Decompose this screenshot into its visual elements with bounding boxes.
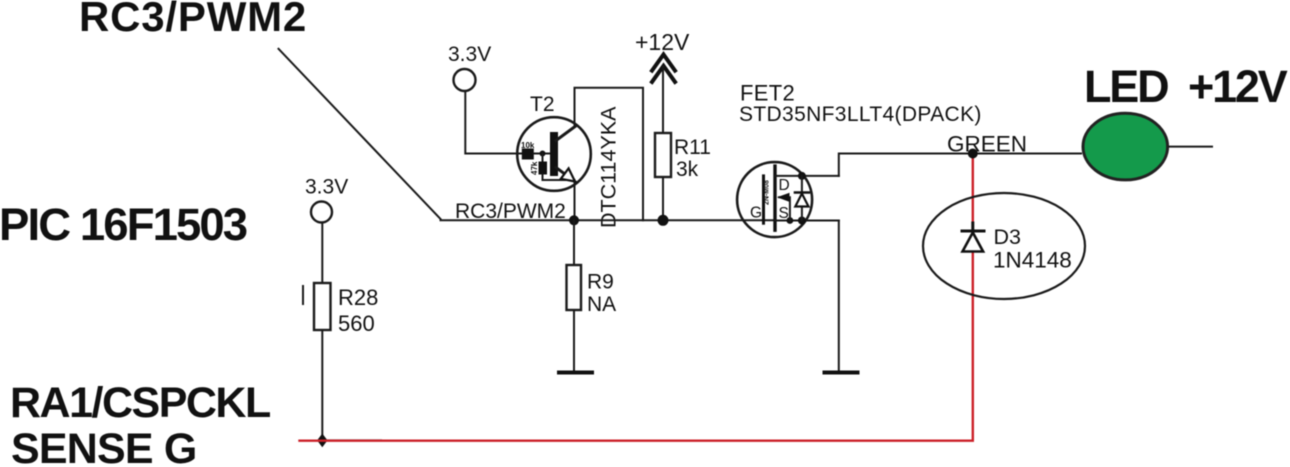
svg-text:RC3/PWM2: RC3/PWM2	[79, 0, 307, 40]
svg-text:3.3V: 3.3V	[448, 43, 491, 66]
svg-text:LED +12V: LED +12V	[1084, 61, 1288, 112]
T2 internal wire: box to base bar	[534, 153, 550, 155]
T2 internal base resistor 10k (black box)	[522, 149, 534, 160]
wire: 3.3V right terminal to T2 base	[465, 91, 522, 154]
svg-text:47k: 47k	[530, 161, 539, 175]
svg-text:NA: NA	[587, 293, 616, 316]
wire: source down to ground	[838, 221, 840, 372]
svg-text:R9: R9	[587, 271, 614, 294]
LED (green)	[1083, 113, 1168, 180]
svg-text:DTC114YKA: DTC114YKA	[597, 106, 621, 228]
T2 internal wire: 47k to emitter	[543, 175, 575, 181]
svg-text:PIC 16F1503: PIC 16F1503	[0, 199, 247, 250]
svg-text:10k: 10k	[521, 141, 535, 150]
junction: GREEN node	[968, 149, 978, 159]
T2 internal junction	[540, 151, 546, 157]
FET2 body arrowhead	[777, 193, 790, 202]
wire: R28 to RA1 node	[321, 330, 323, 440]
transistor T2 (DTC114YKA digital transistor)	[517, 117, 591, 191]
T2 internal 47k resistor (black box)	[539, 162, 548, 175]
svg-text:RC3/PWM2: RC3/PWM2	[455, 200, 566, 223]
T2 emitter arrow (open)	[561, 168, 575, 181]
resistor R28	[314, 283, 331, 330]
svg-text:D: D	[779, 177, 790, 194]
transistor FET2 (N-MOSFET) body circle	[737, 162, 812, 237]
wire: diagonal callout line from RC3/PWM2 text to net	[279, 49, 441, 219]
wire: red SENSE G net (bottom run)	[300, 154, 973, 441]
svg-text:1N4148: 1N4148	[993, 248, 1072, 273]
svg-text:R11: R11	[674, 136, 711, 159]
junction: R11 / gate node	[658, 215, 669, 226]
wire: R9 to ground	[573, 310, 575, 371]
wire: T2 collector up, over and down to gate node	[575, 88, 644, 221]
svg-text:T2: T2	[530, 93, 555, 116]
D3 highlight ellipse	[923, 193, 1085, 299]
ground symbol (FET2 source)	[825, 371, 858, 375]
FET2 source lead	[775, 220, 839, 222]
svg-text:GREEN: GREEN	[947, 132, 1027, 157]
T2 base bar	[550, 132, 558, 176]
svg-text:RA1/CSPCKL: RA1/CSPCKL	[10, 379, 270, 427]
FET2 body diode lead	[801, 176, 803, 221]
FET2 body arrow lead	[779, 197, 790, 220]
junction: emitter / R9 node	[569, 215, 579, 225]
svg-text:D3: D3	[994, 225, 1022, 249]
wire: +12V to R11	[662, 67, 664, 134]
power +12V arrow symbol	[652, 55, 675, 71]
FET2 body diode cathode bar	[795, 191, 809, 194]
FET2 channel bar	[773, 166, 776, 230]
junction: RA1/SENSE G node	[317, 434, 327, 448]
T2 internal wire: junction down to 47k	[542, 154, 544, 162]
svg-text:G: G	[750, 205, 762, 222]
svg-text:2N-M08: 2N-M08	[764, 180, 771, 205]
wire: T2 emitter down to RC3/PWM2 node	[574, 182, 576, 220]
stray mark left of R28	[302, 286, 304, 304]
FET2 source junction dots	[787, 217, 794, 224]
wire: R11 to gate node	[662, 177, 664, 220]
wire: black RA1 stub to right	[322, 439, 381, 441]
FET2 drain junction dot	[798, 172, 806, 180]
wire: LED to +12V	[1169, 146, 1212, 148]
resistor R11	[655, 133, 671, 177]
diode D3 cathode stub	[971, 223, 974, 231]
T2 collector stroke	[556, 127, 575, 141]
wire: drain up to LED net	[839, 154, 1081, 176]
wire: RC3/PWM2 horizontal net to FET gate	[441, 219, 776, 221]
T2 emitter stroke	[556, 168, 576, 183]
FET2 gate bar	[762, 176, 765, 223]
resistor R9	[567, 265, 582, 310]
svg-text:SENSE G: SENSE G	[11, 425, 197, 467]
wire: 3.3V left terminal to R28	[321, 223, 323, 283]
svg-text:FET2: FET2	[740, 81, 795, 106]
svg-text:3.3V: 3.3V	[305, 176, 348, 199]
FET2 body diode triangle	[795, 194, 808, 207]
svg-text:560: 560	[338, 311, 375, 336]
wire: node to R9	[573, 220, 575, 265]
FET2 drain lead	[775, 175, 839, 177]
svg-text:R28: R28	[338, 285, 378, 310]
svg-text:+12V: +12V	[635, 29, 690, 55]
diode D3 cathode bar	[962, 230, 984, 233]
ground symbol (R9)	[559, 371, 592, 375]
svg-text:3k: 3k	[676, 158, 699, 181]
svg-text:STD35NF3LLT4(DPACK): STD35NF3LLT4(DPACK)	[739, 103, 982, 126]
diode D3 triangle	[963, 233, 984, 252]
